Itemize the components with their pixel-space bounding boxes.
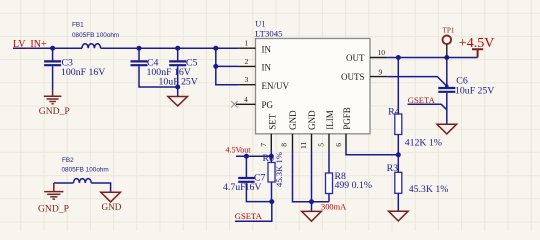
svg-text:45.3K 1%: 45.3K 1% xyxy=(274,152,284,187)
svg-text:9: 9 xyxy=(379,67,383,76)
svg-text:PGFB: PGFB xyxy=(342,107,352,130)
svg-text:3: 3 xyxy=(245,75,249,84)
pin 5 ILIM xyxy=(328,134,330,150)
wire: input net from FB1 to IC pin area xyxy=(101,47,239,49)
svg-text:5: 5 xyxy=(317,143,326,147)
svg-text:C5: C5 xyxy=(186,58,198,69)
svg-text:GND: GND xyxy=(288,110,298,130)
svg-text:R4: R4 xyxy=(388,106,400,117)
node: junction C7 top xyxy=(244,154,249,159)
pin 11 GND xyxy=(311,134,313,150)
resistor R8 xyxy=(328,150,330,173)
ground GND_P (power ground below C3) xyxy=(44,90,62,104)
node: junction SET xyxy=(269,154,274,159)
svg-text:4.5Vout: 4.5Vout xyxy=(226,146,252,155)
resistor R3 xyxy=(397,155,399,173)
resistor R6 xyxy=(268,163,275,183)
wire: OUT net to +4.5V xyxy=(387,57,477,59)
svg-text:R3: R3 xyxy=(387,163,399,174)
svg-text:OUTS: OUTS xyxy=(341,72,365,82)
svg-text:GND_P: GND_P xyxy=(38,203,69,214)
svg-text:GSETA: GSETA xyxy=(235,211,263,221)
svg-text:GND: GND xyxy=(102,202,122,212)
svg-text:GSETA: GSETA xyxy=(408,95,436,105)
svg-text:300mA: 300mA xyxy=(321,203,346,212)
capacitor C6 xyxy=(446,58,448,88)
node: junction C4/C5 bottom xyxy=(175,85,180,90)
pin 10 OUT xyxy=(370,57,387,59)
no-ERC cross on pin 4 xyxy=(231,101,237,107)
ground GND_P (left of FB2) xyxy=(44,183,63,199)
node: junction R6/C7 bottom xyxy=(269,199,274,204)
pin 8 GND xyxy=(292,134,294,150)
svg-text:LT3045: LT3045 xyxy=(255,28,283,38)
capacitor C7 xyxy=(245,156,247,177)
svg-text:2: 2 xyxy=(245,57,249,66)
op-amp U1 LT3045 regulator body xyxy=(256,39,371,134)
pin 2 IN xyxy=(239,65,256,67)
svg-text:412K 1%: 412K 1% xyxy=(405,137,442,148)
pin 6 PGFB xyxy=(345,134,347,148)
capacitor C4 xyxy=(138,48,140,60)
svg-text:PG: PG xyxy=(262,100,274,110)
node: junction OUTS/C6 xyxy=(445,84,449,88)
svg-text:10: 10 xyxy=(378,48,386,57)
wire: C4 bottom to C5 bottom xyxy=(139,66,178,87)
capacitor C3 xyxy=(52,48,54,60)
svg-text:EN/UV: EN/UV xyxy=(262,81,290,91)
resistor R4 xyxy=(397,58,399,115)
svg-text:U1: U1 xyxy=(255,19,265,28)
svg-text:100nF 16V: 100nF 16V xyxy=(61,67,105,78)
svg-text:ILIM: ILIM xyxy=(325,110,335,130)
svg-text:10uF: 10uF xyxy=(455,86,476,97)
ground (triangle below C5) xyxy=(168,97,188,106)
svg-text:SET: SET xyxy=(267,113,277,130)
svg-text:25V: 25V xyxy=(478,86,495,97)
svg-text:7: 7 xyxy=(259,143,268,147)
node: junction at C3 xyxy=(50,46,55,51)
svg-text:0805FB 100ohm: 0805FB 100ohm xyxy=(72,32,119,39)
node: junction GND xyxy=(309,199,314,204)
svg-text:IN: IN xyxy=(262,63,272,73)
node: junction pin2 xyxy=(213,64,218,69)
ground (triangle below C6) xyxy=(437,124,457,134)
wire: GSETA net (left) xyxy=(235,202,272,222)
power +4.5V bar xyxy=(472,49,483,57)
svg-text:6: 6 xyxy=(334,143,343,147)
wire: OUTS to C6 top (kelvin) xyxy=(387,77,447,87)
node: junction at TP1/C6 column xyxy=(444,55,449,60)
capacitor C5 xyxy=(177,48,179,60)
svg-text:GND: GND xyxy=(307,110,317,130)
ferrite bead FB1 xyxy=(82,44,101,48)
wire: SET net with 4.5Vout label xyxy=(236,155,271,157)
svg-text:11: 11 xyxy=(299,141,308,149)
pin 4 PG (no connect) xyxy=(236,103,256,105)
node: junction at R4 column xyxy=(396,55,401,60)
svg-text:4.7uF: 4.7uF xyxy=(223,182,246,193)
wire: PGFB to R4/R3 node xyxy=(346,148,398,155)
pin 7 SET xyxy=(270,134,272,150)
pin 9 OUTS xyxy=(370,76,387,78)
node: junction at C5 xyxy=(175,46,180,51)
pin 3 EN/UV xyxy=(239,84,256,86)
svg-text:GND_P: GND_P xyxy=(39,106,70,117)
svg-text:16V: 16V xyxy=(245,182,262,193)
ground GND (triangle right of FB2) xyxy=(101,192,121,202)
wire: GSETA stub to C6 ground wire xyxy=(408,104,447,110)
wire: bus down to pins 2,3 xyxy=(216,48,239,84)
ground (triangle below R3) xyxy=(389,211,409,221)
svg-text:499 0.1%: 499 0.1% xyxy=(335,180,373,191)
svg-text:IN: IN xyxy=(262,44,272,54)
node: junction at C4 xyxy=(137,46,142,51)
svg-text:4: 4 xyxy=(244,95,248,104)
node: junction R4/R3/PGFB xyxy=(396,152,401,157)
wire: GND pins to ground xyxy=(293,150,330,202)
svg-text:LV_IN+: LV_IN+ xyxy=(13,39,47,50)
svg-text:25V: 25V xyxy=(181,77,198,88)
svg-text:+4.5V: +4.5V xyxy=(459,36,495,51)
wire: main input net LV_IN+ xyxy=(13,47,82,49)
svg-text:FB1: FB1 xyxy=(72,22,84,29)
wire: to pin 2 xyxy=(216,65,239,67)
svg-text:1: 1 xyxy=(245,39,249,48)
node: junction input bus xyxy=(213,46,218,51)
svg-text:FB2: FB2 xyxy=(62,157,74,164)
svg-text:OUT: OUT xyxy=(346,53,365,63)
svg-text:R6: R6 xyxy=(263,153,275,164)
ground (triangle below U1) xyxy=(302,211,322,221)
svg-text:8: 8 xyxy=(280,143,289,147)
svg-text:TP1: TP1 xyxy=(443,26,455,34)
svg-text:0805FB 100ohm: 0805FB 100ohm xyxy=(62,167,109,174)
pin 1 IN xyxy=(239,47,256,49)
svg-text:45.3K 1%: 45.3K 1% xyxy=(409,184,449,195)
